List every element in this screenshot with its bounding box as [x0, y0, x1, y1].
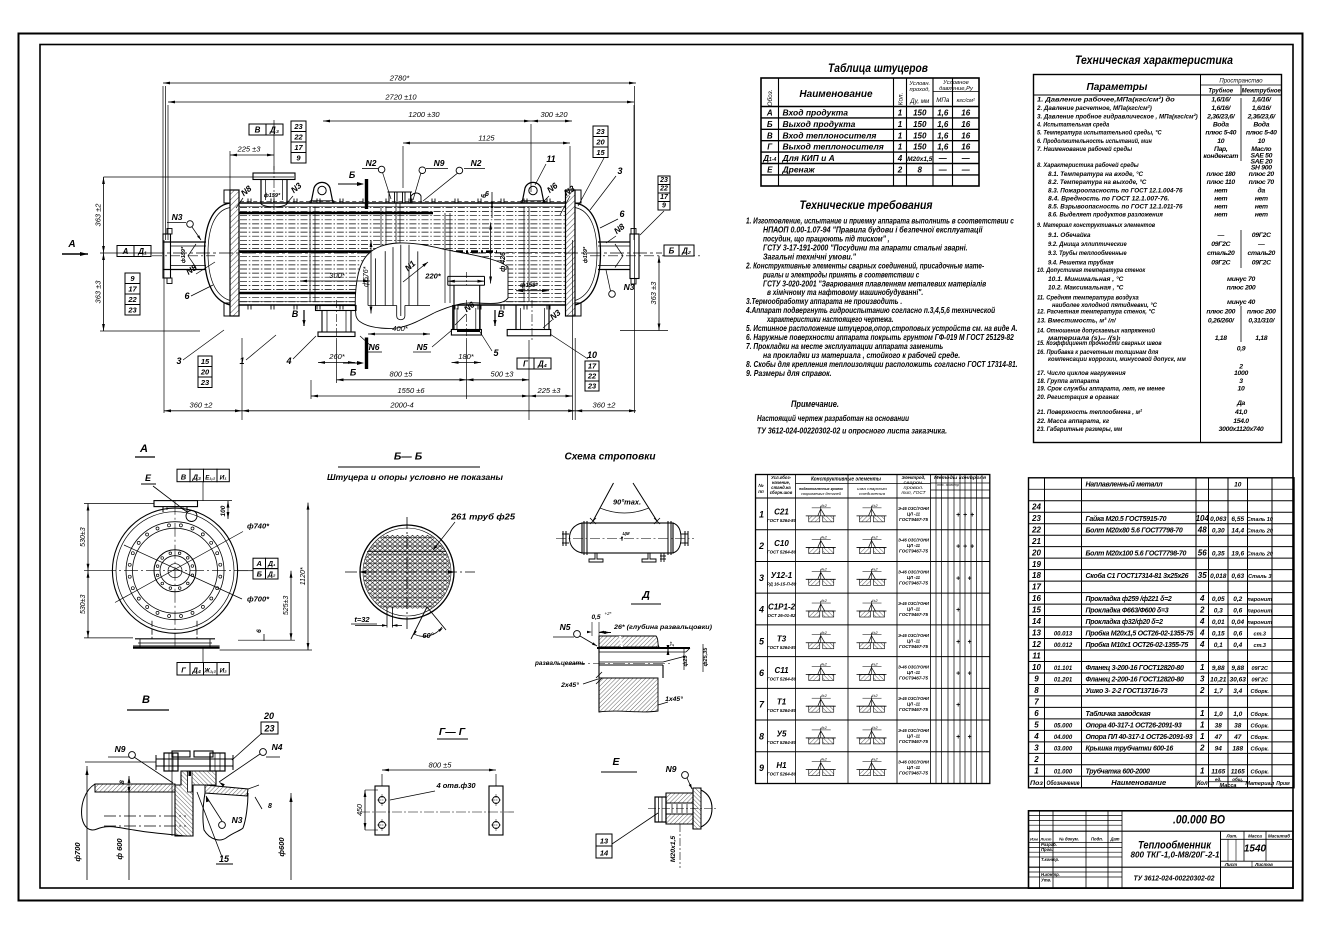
svg-text:17: 17 [294, 143, 303, 152]
svg-text:0,018: 0,018 [1210, 573, 1227, 580]
svg-text:3: 3 [1200, 675, 1205, 684]
svg-text:ГОСТ 5264-80: ГОСТ 5264-80 [767, 708, 797, 713]
svg-text:Лит.: Лит. [1225, 834, 1237, 839]
svg-text:давление,Ру: давление,Ру [939, 86, 974, 92]
svg-text:30,63: 30,63 [1230, 677, 1247, 684]
svg-text:1,7: 1,7 [1214, 688, 1223, 695]
svg-text:14. Отношение допускаемых напр: 14. Отношение допускаемых напряжений [1037, 327, 1156, 335]
svg-text:ГОСТ9467-75: ГОСТ9467-75 [899, 707, 929, 712]
svg-text:1,6: 1,6 [937, 109, 949, 118]
svg-text:ф576*: ф576* [363, 266, 370, 287]
svg-text:Сборк.: Сборк. [1251, 688, 1270, 695]
svg-text:ГОСТ9467-75: ГОСТ9467-75 [899, 771, 929, 776]
svg-text:4±2: 4±2 [871, 536, 878, 540]
svg-text:530±3: 530±3 [80, 527, 87, 547]
svg-text:А: А [139, 443, 148, 455]
svg-text:16: 16 [961, 131, 970, 140]
svg-text:3. Давление пробное гидравличе: 3. Давление пробное гидравлическое , МПа… [1037, 113, 1198, 121]
svg-text:150: 150 [913, 120, 927, 129]
svg-text:23: 23 [263, 724, 274, 734]
svg-text:1,6/16/: 1,6/16/ [1211, 105, 1231, 112]
svg-text:Сборк.: Сборк. [1251, 734, 1270, 741]
svg-text:Г— Г: Г— Г [439, 726, 466, 738]
svg-text:0,2: 0,2 [1233, 596, 1242, 603]
svg-text:14: 14 [1032, 617, 1041, 626]
svg-text:ГОСТ 5264-80: ГОСТ 5264-80 [767, 772, 797, 777]
svg-text:+: + [956, 734, 960, 741]
svg-text:2000-4: 2000-4 [389, 400, 413, 409]
svg-text:Настоящий чертеж разработан на: Настоящий чертеж разработан на основании [757, 413, 910, 423]
svg-text:47: 47 [1214, 734, 1223, 741]
svg-text:8: 8 [759, 731, 764, 741]
svg-text:нет: нет [1214, 188, 1227, 195]
svg-text:Б: Б [349, 170, 356, 180]
svg-text:Лист: Лист [1224, 862, 1237, 867]
svg-text:+: + [967, 734, 971, 741]
svg-text:300 ±20: 300 ±20 [540, 110, 568, 119]
svg-text:4±2: 4±2 [871, 662, 878, 666]
svg-text:Т.контр.: Т.контр. [1041, 857, 1059, 862]
svg-text:Вход теплоносителя: Вход теплоносителя [783, 130, 877, 140]
svg-text:№ докум.: № докум. [1059, 837, 1079, 842]
svg-text:Наименование: Наименование [1111, 778, 1166, 787]
svg-text:363 ±2: 363 ±2 [94, 203, 103, 227]
svg-text:плюс 180: плюс 180 [1206, 171, 1235, 178]
svg-text:Э-46 ОЗС/УОНИ: Э-46 ОЗС/УОНИ [898, 601, 930, 606]
svg-text:3,4: 3,4 [1233, 688, 1242, 695]
svg-text:01.201: 01.201 [1054, 678, 1073, 684]
svg-text:Т1: Т1 [777, 698, 787, 707]
svg-text:В: В [255, 126, 261, 135]
svg-text:4: 4 [1199, 594, 1205, 603]
svg-text:B: B [498, 309, 505, 319]
svg-text:ст.3: ст.3 [1254, 632, 1266, 638]
svg-text:2: 2 [758, 541, 764, 551]
svg-text:17: 17 [128, 285, 137, 294]
svg-text:И₁: И₁ [220, 474, 227, 481]
svg-text:Д₂: Д₂ [267, 572, 276, 579]
svg-text:1165: 1165 [1231, 768, 1245, 775]
svg-text:2. Конструктивные элементы сва: 2. Конструктивные элементы сварных соеди… [745, 261, 984, 270]
svg-text:Пробка М20х1,5 ОСТ26-02-1355-7: Пробка М20х1,5 ОСТ26-02-1355-75 [1086, 630, 1194, 638]
svg-text:Да: Да [1236, 400, 1246, 407]
svg-text:1: 1 [898, 120, 903, 129]
svg-text:18. Группа аппарата: 18. Группа аппарата [1037, 378, 1099, 385]
svg-text:Сталь 20: Сталь 20 [1247, 551, 1273, 557]
svg-text:4±2: 4±2 [871, 599, 878, 603]
svg-text:0,3: 0,3 [1214, 608, 1223, 615]
svg-text:9. Материал конструктивных эле: 9. Материал конструктивных элементов [1037, 222, 1155, 229]
svg-text:9.1. Обечайка: 9.1. Обечайка [1048, 231, 1091, 239]
svg-text:ЦЛ -11: ЦЛ -11 [907, 733, 921, 738]
svg-text:+: + [956, 670, 960, 677]
svg-text:минус 70: минус 70 [1227, 276, 1255, 283]
svg-text:09Г2С: 09Г2С [1251, 666, 1269, 672]
svg-text:Подп.: Подп. [1091, 837, 1103, 842]
svg-text:t=32: t=32 [354, 615, 370, 624]
svg-text:Е₁,₂: Е₁,₂ [205, 475, 216, 481]
svg-text:+: + [970, 544, 974, 551]
svg-text:8.5. Взрывоопасность по ГОСТ: 8.5. Взрывоопасность по ГОСТ 12.1.011-76 [1048, 204, 1183, 211]
svg-text:1,0: 1,0 [1233, 711, 1242, 718]
svg-text:2780*: 2780* [389, 74, 411, 83]
svg-text:24: 24 [1031, 502, 1041, 511]
svg-text:4: 4 [1199, 640, 1205, 649]
svg-text:3: 3 [1239, 378, 1243, 385]
svg-text:525±3: 525±3 [283, 596, 290, 616]
svg-text:Сталь 10: Сталь 10 [1247, 517, 1273, 523]
svg-text:плюс 200: плюс 200 [1247, 309, 1276, 316]
svg-text:+: + [967, 670, 971, 677]
svg-text:N3: N3 [232, 815, 243, 825]
svg-text:Штуцера и опоры условно не пок: Штуцера и опоры условно не показаны [327, 473, 503, 482]
svg-text:23: 23 [127, 306, 137, 315]
svg-text:Технические требования: Технические требования [800, 200, 933, 212]
svg-text:17. Число циклов нагружения: 17. Число циклов нагружения [1037, 370, 1126, 377]
svg-text:С11: С11 [774, 666, 789, 675]
svg-text:23. Габаритные размеры, мм: 23. Габаритные размеры, мм [1036, 425, 1122, 433]
svg-text:Д: Д [641, 589, 650, 601]
svg-text:11. Средняя температура воздух: 11. Средняя температура воздуха [1037, 294, 1139, 302]
svg-text:Б: Б [669, 247, 675, 256]
svg-text:+: + [956, 702, 960, 709]
svg-text:23: 23 [293, 122, 303, 131]
svg-text:Выход теплоносителя: Выход теплоносителя [783, 142, 884, 152]
svg-text:+: + [967, 575, 971, 582]
svg-text:Ж₁,₂: Ж₁,₂ [203, 669, 216, 675]
svg-text:47: 47 [1233, 734, 1242, 741]
svg-text:ф700*: ф700* [247, 595, 270, 604]
svg-text:1540: 1540 [1244, 844, 1267, 855]
svg-text:800 ±5: 800 ±5 [390, 369, 414, 378]
svg-text:ст.3: ст.3 [1254, 643, 1266, 649]
svg-text:Межтрубное: Межтрубное [1242, 88, 1282, 95]
svg-text:1,0: 1,0 [1214, 711, 1223, 718]
svg-text:363 ±3: 363 ±3 [94, 280, 103, 304]
svg-text:9: 9 [759, 763, 764, 773]
svg-text:конденсат: конденсат [1203, 152, 1238, 160]
svg-text:Сборк.: Сборк. [1251, 722, 1270, 729]
svg-text:7. Наименование рабочей среды: 7. Наименование рабочей среды [1037, 145, 1132, 153]
svg-text:Э-46 ОЗС/УОНИ: Э-46 ОЗС/УОНИ [898, 633, 930, 638]
svg-text:ЦЛ -11: ЦЛ -11 [907, 511, 921, 516]
svg-text:Сталь 20: Сталь 20 [1247, 528, 1273, 534]
svg-text:Вода: Вода [1253, 121, 1269, 129]
svg-text:7: 7 [1034, 698, 1039, 707]
svg-text:Кол: Кол [1197, 781, 1208, 787]
svg-text:Скоба С1 ГОСТ17314-81 3х2: Скоба С1 ГОСТ17314-81 3х25х26 [1086, 572, 1189, 580]
svg-text:Д₂: Д₂ [681, 247, 691, 256]
svg-text:М20х1,5: М20х1,5 [670, 836, 677, 863]
svg-text:Б— Б: Б— Б [394, 451, 423, 463]
svg-text:10. Допустимая температура сте: 10. Допустимая температура стенок [1037, 267, 1146, 274]
svg-text:15: 15 [219, 854, 230, 864]
svg-text:4±2: 4±2 [821, 599, 828, 603]
svg-text:А: А [766, 109, 773, 118]
svg-text:12. Расчетная температура стен: 12. Расчетная температура стенок, °С [1037, 308, 1155, 316]
svg-text:ГОСТ9467-75: ГОСТ9467-75 [899, 580, 929, 585]
svg-text:9,88: 9,88 [1231, 665, 1244, 672]
svg-text:B: B [292, 309, 299, 319]
svg-text:21: 21 [1031, 537, 1041, 546]
svg-text:8: 8 [918, 166, 923, 175]
svg-text:плюс 110: плюс 110 [1207, 179, 1236, 186]
svg-text:ед.: ед. [1215, 777, 1222, 782]
svg-text:4±2: 4±2 [871, 504, 878, 508]
svg-text:10: 10 [1032, 663, 1041, 672]
svg-text:4±2: 4±2 [871, 726, 878, 730]
svg-text:38: 38 [1215, 722, 1223, 729]
svg-text:0,31/310/: 0,31/310/ [1248, 318, 1275, 325]
svg-text:3.Термообработку аппарата не п: 3.Термообработку аппарата не производить… [746, 296, 902, 306]
svg-text:плюс 200: плюс 200 [1206, 309, 1235, 316]
svg-text:N9: N9 [115, 744, 126, 754]
svg-text:500 ±3: 500 ±3 [491, 369, 515, 378]
svg-text:пп: пп [758, 489, 764, 494]
svg-text:Ушко 3- 2-2 ГОСТ13716-73: Ушко 3- 2-2 ГОСТ13716-73 [1086, 688, 1168, 695]
svg-text:+: + [956, 544, 960, 551]
svg-text:1: 1 [898, 109, 903, 118]
svg-text:11: 11 [546, 154, 555, 164]
svg-text:8. Характеристика рабочей сред: 8. Характеристика рабочей среды [1037, 161, 1139, 169]
svg-text:2,36/23,6/: 2,36/23,6/ [1247, 114, 1277, 121]
svg-text:530±3: 530±3 [80, 594, 87, 614]
svg-text:в хімічному та нафтовому машин: в хімічному та нафтовому машинобудуванні… [767, 287, 923, 297]
svg-text:ф 600: ф 600 [115, 838, 124, 860]
svg-text:ф159*: ф159* [264, 192, 281, 199]
svg-text:ГСТУ 3-17-191-2000 "Посудини т: ГСТУ 3-17-191-2000 "Посудини та апарати … [763, 243, 968, 252]
svg-text:проход,: проход, [910, 87, 930, 93]
svg-text:Прокладка Ф663/Ф600 δ=3: Прокладка Ф663/Ф600 δ=3 [1086, 607, 1169, 615]
svg-text:Примечание.: Примечание. [791, 399, 839, 409]
svg-text:+: + [967, 639, 971, 646]
svg-text:225 ±3: 225 ±3 [537, 386, 562, 395]
svg-text:+2*: +2* [605, 611, 612, 616]
svg-text:4±2: 4±2 [871, 631, 878, 635]
svg-text:0,6: 0,6 [1233, 608, 1242, 615]
svg-text:Крышка трубчатки 600-16: Крышка трубчатки 600-16 [1086, 744, 1174, 752]
svg-text:15: 15 [596, 148, 605, 157]
svg-text:1,18: 1,18 [1215, 335, 1228, 342]
svg-text:Методы контроля: Методы контроля [934, 475, 987, 480]
svg-text:9.4. Решетка трубная: 9.4. Решетка трубная [1048, 259, 1114, 267]
svg-text:плюс 20: плюс 20 [1249, 171, 1275, 178]
svg-text:11: 11 [1032, 652, 1041, 661]
svg-text:С10: С10 [774, 539, 789, 548]
svg-text:нет: нет [1255, 212, 1268, 219]
svg-text:10.2. Максимальная , °С: 10.2. Максимальная , °С [1048, 284, 1123, 292]
svg-text:1: 1 [1200, 766, 1205, 775]
svg-text:1200 ±30: 1200 ±30 [408, 110, 440, 119]
svg-text:0,04: 0,04 [1231, 619, 1244, 626]
svg-text:8.1. Температура на входе, °С: 8.1. Температура на входе, °С [1048, 170, 1143, 178]
svg-text:Параметры: Параметры [1087, 82, 1148, 93]
svg-text:Е: Е [612, 756, 620, 768]
svg-text:18: 18 [1032, 571, 1041, 580]
svg-text:ГОСТ 5264-80: ГОСТ 5264-80 [767, 740, 797, 745]
svg-text:1: 1 [1034, 766, 1039, 775]
svg-text:Т3: Т3 [777, 634, 787, 643]
svg-text:Б: Б [257, 570, 263, 579]
svg-text:Фланец 2-200-16 ГОСТ12820-80: Фланец 2-200-16 ГОСТ12820-80 [1086, 677, 1184, 684]
svg-text:+: + [956, 607, 960, 614]
svg-text:сталь20: сталь20 [1207, 250, 1235, 257]
svg-text:ГОСТ9467-75: ГОСТ9467-75 [899, 675, 929, 680]
svg-text:1,6: 1,6 [937, 143, 949, 152]
svg-text:9.2. Днища эллиптические: 9.2. Днища эллиптические [1048, 241, 1127, 248]
svg-text:МПа: МПа [936, 97, 950, 104]
svg-text:2: 2 [1199, 606, 1205, 615]
svg-text:0,9: 0,9 [1237, 346, 1246, 353]
svg-text:6: 6 [1034, 709, 1039, 718]
svg-text:8: 8 [119, 780, 126, 784]
svg-text:4±2: 4±2 [821, 631, 828, 635]
svg-text:4: 4 [1033, 732, 1039, 741]
svg-text:220*: 220* [424, 272, 442, 281]
svg-text:1,6: 1,6 [937, 131, 949, 140]
svg-text:Масса: Масса [1220, 783, 1237, 789]
svg-text:2,36/23,6/: 2,36/23,6/ [1206, 114, 1236, 121]
svg-text:4±2: 4±2 [821, 694, 828, 698]
svg-text:8.3. Пожароопасность по ГОСТ: 8.3. Пожароопасность по ГОСТ 12.1.004-76 [1048, 188, 1183, 195]
svg-text:сборн.шов: сборн.шов [770, 490, 793, 495]
svg-text:да: да [1258, 187, 1266, 195]
svg-text:4±2: 4±2 [821, 662, 828, 666]
svg-text:Выход продукта: Выход продукта [783, 119, 856, 129]
svg-text:04.000: 04.000 [1054, 735, 1073, 741]
svg-text:94: 94 [1215, 745, 1223, 752]
svg-text:8.6. Выделяет продуктов разло: 8.6. Выделяет продуктов разложения [1048, 211, 1163, 219]
svg-text:00.012: 00.012 [1054, 643, 1073, 649]
svg-text:4±2: 4±2 [821, 504, 828, 508]
svg-text:1000: 1000 [1234, 370, 1248, 377]
svg-text:4: 4 [758, 605, 764, 615]
svg-text:16. Прибавка к расчетным толщи: 16. Прибавка к расчетным толщинам для [1037, 348, 1158, 356]
svg-text:1. Давление рабочее,МПа(кгс/см: 1. Давление рабочее,МПа(кгс/см²) до [1037, 96, 1175, 104]
svg-text:20: 20 [595, 138, 605, 147]
svg-text:№: № [758, 483, 764, 488]
svg-text:N9: N9 [434, 158, 445, 168]
svg-text:0,6: 0,6 [1233, 631, 1242, 638]
svg-text:Масса: Масса [1248, 834, 1262, 839]
svg-text:ТУ 3612-024-00220302-02: ТУ 3612-024-00220302-02 [1134, 874, 1216, 883]
svg-text:Е: Е [145, 473, 152, 483]
svg-text:развальцевать: развальцевать [534, 660, 585, 667]
svg-text:Техническая характеристика: Техническая характеристика [1075, 55, 1234, 67]
svg-text:ЦЛ -11: ЦЛ -11 [907, 702, 921, 707]
svg-text:360 ±2: 360 ±2 [593, 400, 617, 409]
svg-text:—: — [1257, 241, 1265, 248]
svg-text:300*: 300* [329, 271, 346, 280]
svg-text:17: 17 [660, 194, 669, 201]
svg-text:свариваемых деталей: свариваемых деталей [801, 491, 842, 496]
svg-text:Д₁: Д₁ [137, 247, 147, 256]
svg-text:15. Коэффициент прочности свар: 15. Коэффициент прочности сварных швов [1037, 340, 1162, 347]
svg-text:ЦЛ -11: ЦЛ -11 [907, 765, 921, 770]
svg-text:+: + [970, 512, 974, 519]
svg-text:12: 12 [1032, 640, 1041, 649]
svg-text:180*: 180* [458, 352, 475, 361]
svg-text:8. Скобы для крепления теплоиз: 8. Скобы для крепления теплоизоляции рас… [746, 359, 1018, 369]
svg-text:225 ±3: 225 ±3 [237, 145, 262, 154]
svg-text:+: + [963, 544, 967, 551]
svg-text:22: 22 [293, 133, 303, 142]
svg-text:19,6: 19,6 [1231, 550, 1244, 557]
svg-text:20. Регистрация в органах: 20. Регистрация в органах [1036, 394, 1120, 401]
svg-text:Э-46 ОЗС/УОНИ: Э-46 ОЗС/УОНИ [898, 696, 930, 701]
svg-text:N9: N9 [666, 764, 677, 774]
svg-text:6. Наружные поверхности аппара: 6. Наружные поверхности аппарата покрыть… [746, 333, 1014, 342]
svg-text:N2: N2 [366, 158, 377, 168]
svg-text:Обозначение: Обозначение [1047, 779, 1080, 787]
svg-text:—: — [938, 154, 948, 163]
svg-text:Наименование: Наименование [799, 89, 873, 100]
svg-text:4±2: 4±2 [821, 726, 828, 730]
svg-text:0,1: 0,1 [1214, 642, 1223, 649]
svg-text:Таблица штуцеров: Таблица штуцеров [828, 63, 928, 75]
svg-text:41,0: 41,0 [1234, 409, 1248, 416]
svg-text:10: 10 [1238, 386, 1245, 393]
svg-text:тех. осмотр: тех. осмотр [937, 483, 959, 487]
svg-text:нет: нет [1214, 212, 1227, 219]
svg-text:паронит: паронит [1247, 620, 1272, 626]
svg-text:188: 188 [1232, 745, 1243, 752]
svg-text:плюс 5-40: плюс 5-40 [1205, 130, 1236, 137]
svg-text:14: 14 [600, 849, 609, 858]
svg-text:ф159*: ф159* [520, 282, 538, 289]
svg-text:ф159*: ф159* [582, 246, 589, 263]
svg-text:ОСТ 26-01-82: ОСТ 26-01-82 [768, 613, 796, 618]
svg-text:Э-46 ОЗС/УОНИ: Э-46 ОЗС/УОНИ [898, 728, 930, 733]
svg-text:10: 10 [587, 350, 597, 360]
svg-text:1: 1 [1200, 709, 1205, 718]
svg-text:35: 35 [1198, 571, 1207, 580]
svg-text:Схема строповки: Схема строповки [565, 451, 657, 463]
svg-text:09Г2С: 09Г2С [1211, 260, 1230, 267]
svg-text:Обоз.: Обоз. [766, 89, 774, 106]
svg-text:Пров.: Пров. [1041, 847, 1053, 852]
svg-text:Масштаб: Масштаб [1268, 833, 1290, 839]
svg-text:03.000: 03.000 [1054, 746, 1073, 752]
svg-text:23: 23 [659, 177, 668, 184]
svg-text:нет: нет [1214, 196, 1227, 203]
svg-text:Опора 40-317-1 ОСТ26-2091-93: Опора 40-317-1 ОСТ26-2091-93 [1086, 722, 1182, 729]
svg-text:Фланец 3-200-16 ГОСТ12820-8: Фланец 3-200-16 ГОСТ12820-80 [1086, 665, 1184, 672]
svg-text:90°max.: 90°max. [613, 499, 641, 507]
svg-text:260*: 260* [328, 352, 346, 361]
svg-text:Прокладка ф32/ф20 δ=2: Прокладка ф32/ф20 δ=2 [1086, 618, 1164, 626]
svg-text:154.0: 154.0 [1233, 418, 1249, 425]
svg-text:паронит: паронит [1247, 609, 1272, 615]
svg-text:2: 2 [897, 166, 903, 175]
svg-text:22. Масса аппарата, кг: 22. Масса аппарата, кг [1036, 418, 1109, 425]
svg-text:Э-46 ОЗС/УОНИ: Э-46 ОЗС/УОНИ [898, 538, 930, 543]
svg-text:+: + [956, 639, 960, 646]
svg-text:N5: N5 [560, 622, 571, 632]
svg-text:Кол.: Кол. [898, 92, 905, 105]
svg-text:16: 16 [961, 143, 970, 152]
svg-text:05.000: 05.000 [1054, 723, 1073, 729]
svg-text:Конструктивные элементы: Конструктивные элементы [811, 477, 882, 483]
svg-text:1: 1 [1200, 720, 1205, 729]
svg-text:0,26/260/: 0,26/260/ [1208, 318, 1235, 325]
svg-text:ГОСТ 5264-80: ГОСТ 5264-80 [767, 518, 797, 523]
svg-text:16: 16 [961, 109, 970, 118]
svg-text:У12-1: У12-1 [771, 571, 793, 580]
svg-text:Д₄: Д₄ [192, 666, 201, 675]
svg-text:21. Поверхность теплообмена ,: 21. Поверхность теплообмена , м² [1036, 408, 1143, 416]
svg-text:минус 40: минус 40 [1227, 299, 1255, 306]
